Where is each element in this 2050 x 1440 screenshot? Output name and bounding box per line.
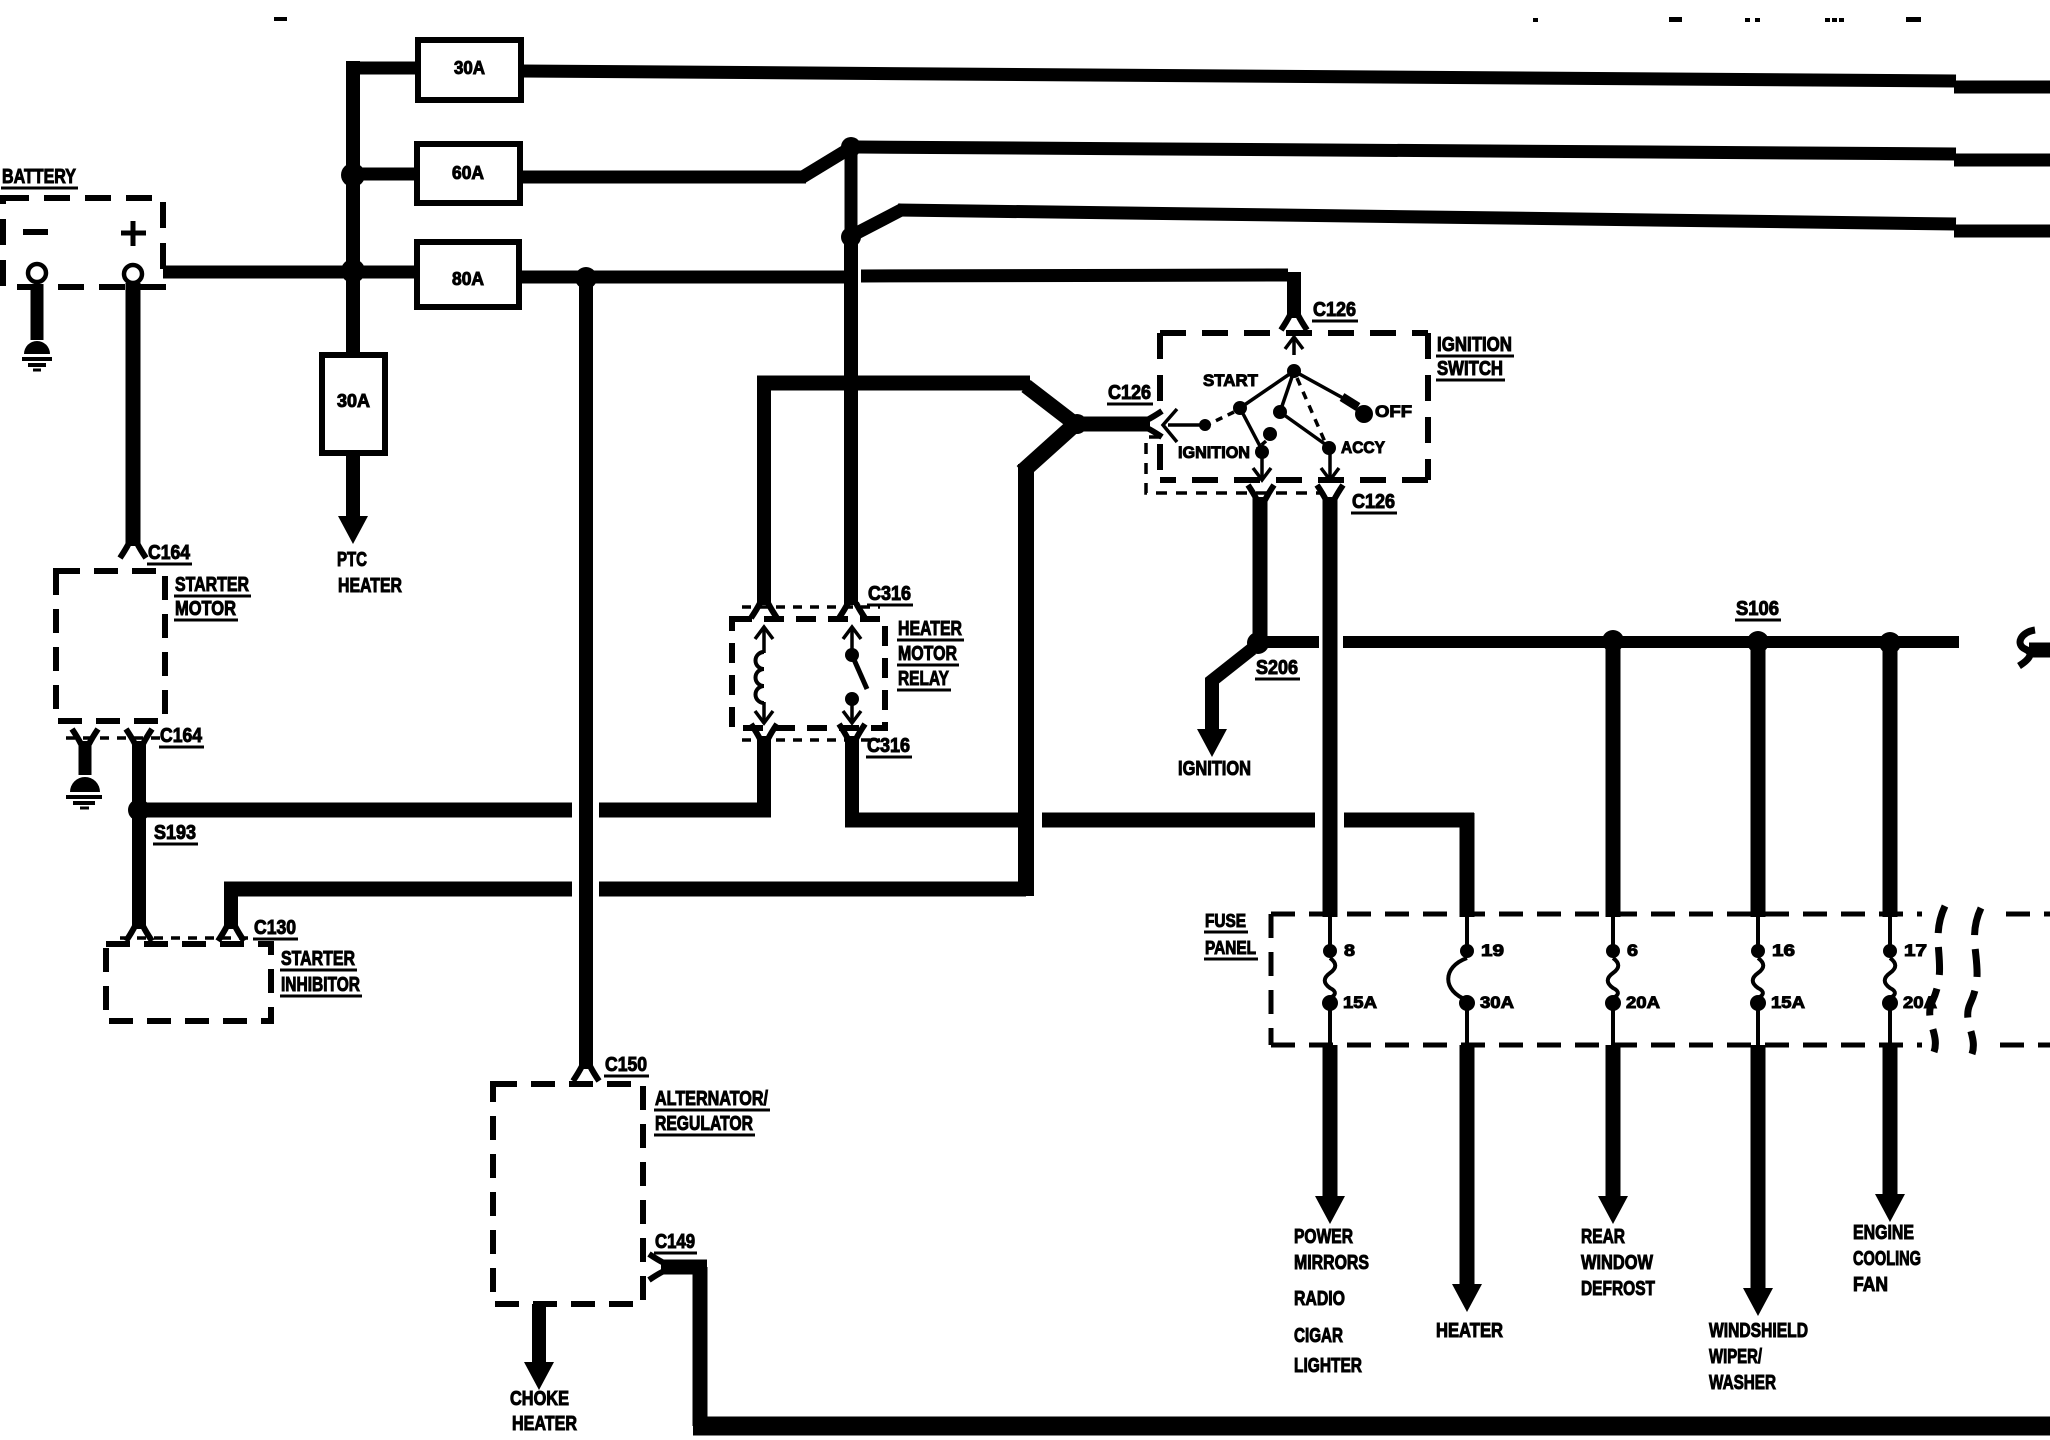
splice S206: [1247, 632, 1269, 654]
svg-text:6: 6: [1627, 941, 1638, 960]
svg-text:20A: 20A: [1626, 993, 1660, 1012]
fuse 16 (15A): [1756, 917, 1760, 948]
svg-text:30A: 30A: [454, 58, 485, 78]
wire: relay output down and right to fuse 19: [845, 736, 859, 827]
svg-text:C164: C164: [160, 725, 203, 747]
svg-text:S206: S206: [1256, 657, 1298, 679]
contact IGNITION: [1255, 445, 1269, 459]
fusible link 30A box: [418, 40, 521, 100]
svg-text:HEATER: HEATER: [898, 618, 962, 640]
arrow to choke heater: [532, 1304, 546, 1366]
svg-text:RADIO: RADIO: [1294, 1288, 1345, 1310]
line START to IGNITION contact: [1240, 408, 1262, 450]
wire: battery negative to ground: [31, 284, 44, 340]
svg-text:COOLING: COOLING: [1853, 1248, 1921, 1270]
svg-text:8: 8: [1344, 941, 1355, 960]
svg-text:20A: 20A: [1903, 993, 1937, 1012]
arrow: fuse 16 output (windshield wiper/washer): [1751, 1045, 1766, 1292]
starter inhibitor dashed box: [106, 944, 271, 1021]
svg-text:C149: C149: [655, 1231, 695, 1253]
switch pivot: [1287, 364, 1301, 378]
svg-text:C130: C130: [254, 917, 296, 939]
contact START: [1240, 371, 1294, 408]
connector C316 (top forks): [751, 603, 777, 618]
wire: 60A feed line to right edge: [858, 147, 1956, 154]
fuse 30A (PTC heater) box: [322, 355, 385, 453]
battery minus terminal symbol: [23, 229, 48, 235]
ground symbol (starter motor): [70, 777, 100, 792]
wire: alternator output bottom feed line: [693, 1417, 2050, 1436]
svg-text:REGULATOR: REGULATOR: [655, 1113, 753, 1135]
svg-text:60A: 60A: [452, 163, 484, 183]
svg-text:IGNITION: IGNITION: [1178, 443, 1250, 462]
small contact dot on line: [1263, 427, 1277, 441]
arrow: fuse 8 output (power mirrors/radio/cigar lighter): [1323, 1045, 1338, 1200]
wire: 30A feed line (top): [521, 71, 1956, 81]
wire: riser x=1026 up toward C126 junction: [1018, 464, 1034, 896]
splice at trunk / 60A tap: [341, 163, 365, 187]
fusible link 80A box: [417, 242, 519, 307]
heater motor relay dashed box: [732, 619, 885, 728]
thin dashed connector line C130: [120, 936, 250, 940]
splice S193: [128, 799, 150, 821]
wire: 80A output: [519, 271, 845, 284]
wire: battery positive down to connector C164: [126, 283, 141, 546]
wire: third feed line to right edge: [898, 210, 1956, 224]
wire: trunk to 60A: [353, 168, 417, 181]
wire: drop to fuse panel (fuse 19): [1460, 813, 1475, 917]
svg-text:DEFROST: DEFROST: [1581, 1278, 1655, 1300]
splice S106: [1747, 631, 1769, 653]
arrow: fuse 17 output (engine cooling fan): [1883, 1045, 1898, 1198]
wire: riser to relay coil pin (left C316): [757, 736, 771, 817]
wire: junction to C126 left connector: [1083, 417, 1150, 432]
wire: diagonal into C126 junction (upper): [1026, 386, 1074, 423]
svg-text:17: 17: [1904, 941, 1927, 960]
arrow to PTC heater: [346, 453, 360, 520]
svg-text:POWER: POWER: [1294, 1226, 1353, 1248]
svg-text:WINDSHIELD: WINDSHIELD: [1709, 1320, 1808, 1342]
fuse 19 (30A): [1465, 917, 1469, 948]
arrow: fuse 6 output (rear window defrost): [1606, 1045, 1621, 1200]
svg-text:IGNITION: IGNITION: [1437, 334, 1512, 356]
wire: diagonal into C126 junction: [1022, 427, 1072, 472]
connector C126 (top fork): [1281, 315, 1307, 330]
svg-text:S106: S106: [1736, 598, 1779, 620]
wire: battery positive to trunk: [163, 266, 353, 279]
svg-text:CIGAR: CIGAR: [1294, 1325, 1343, 1347]
splice (fuse 6 tap): [1602, 630, 1624, 652]
wire: S193 feed right toward heater motor relay: [146, 803, 572, 818]
switch feed pin arrow (up): [1292, 339, 1296, 355]
wire: 80A splice down to alternator C150: [579, 278, 593, 1069]
arrow: fuse 19 output (heater): [1460, 1045, 1475, 1288]
relay switch pin arrow (up): [850, 629, 854, 655]
connector C130 (forks): [126, 926, 152, 941]
wire: C149 output right and down: [661, 1260, 707, 1275]
svg-text:ACCY: ACCY: [1341, 438, 1386, 457]
svg-text:C126: C126: [1352, 491, 1395, 513]
svg-text:C126: C126: [1108, 382, 1151, 404]
ignition switch connector outline (thin dashed): [1146, 437, 1320, 493]
contact OFF: [1294, 371, 1343, 398]
continuation break on bus: [2019, 630, 2035, 666]
connector C316 (bottom forks): [751, 724, 777, 739]
line middle contact to ACCY contact: [1280, 412, 1329, 447]
arrow to IGNITION circuits: [1205, 678, 1219, 733]
battery negative terminal circle: [28, 264, 46, 282]
relay switch contact (lower): [845, 692, 859, 706]
wire: start feed from ignition switch to C130 (vertical at x=231): [224, 882, 238, 929]
wire: relay feed horizontal (from C126 junction) y=383: [757, 376, 1030, 391]
connector C150 (fork): [573, 1066, 599, 1081]
splice (60A feed, upper): [841, 137, 861, 157]
wire: starter motor down to splice S193 and on to C130: [132, 741, 146, 929]
connector C164 (top, fork): [120, 543, 146, 558]
fuse panel continuation break (left curve): [1930, 906, 1945, 1052]
dashed stub below START contact: [1209, 412, 1234, 424]
fuse 8 (15A): [1328, 917, 1332, 948]
ground symbol (battery): [24, 341, 50, 354]
wire: main battery trunk vertical: [346, 61, 360, 355]
svg-text:ENGINE: ENGINE: [1853, 1222, 1914, 1244]
ignition pin arrow down: [1260, 454, 1264, 478]
svg-text:WASHER: WASHER: [1709, 1372, 1776, 1394]
battery positive terminal circle: [124, 265, 142, 283]
fuse panel continuation break (right curve): [1968, 908, 1981, 1054]
svg-text:START: START: [1203, 371, 1259, 390]
splice (fuse 17 tap): [1879, 632, 1901, 654]
wire: drop to fuse 6: [1606, 641, 1621, 917]
svg-text:FUSE: FUSE: [1205, 911, 1246, 931]
connector C126 (left fork): [1147, 411, 1162, 437]
svg-text:ALTERNATOR/: ALTERNATOR/: [655, 1088, 768, 1110]
wire: ignition output down to S206: [1253, 497, 1268, 637]
wire: trunk top corner to fusible link 30A: [347, 62, 418, 75]
fuse panel dashed box: [1271, 914, 1922, 1045]
wire: link between upper and lower splices: [845, 147, 858, 237]
svg-text:19: 19: [1481, 941, 1504, 960]
thin dashed connector line C164 bottom: [66, 736, 160, 740]
svg-text:IGNITION: IGNITION: [1178, 758, 1251, 780]
svg-text:16: 16: [1772, 941, 1795, 960]
wire: drop to relay left pin: [757, 383, 771, 605]
svg-text:15A: 15A: [1343, 993, 1377, 1012]
svg-text:30A: 30A: [337, 391, 370, 411]
wire: trunk down to heater motor relay (x=851): [844, 237, 858, 605]
fuse 17 (20A): [1888, 917, 1892, 948]
svg-text:WIPER/: WIPER/: [1709, 1346, 1762, 1368]
accy pin arrow down: [1328, 454, 1332, 478]
switch feed pin arrow (left): [1168, 423, 1203, 427]
svg-text:BATTERY: BATTERY: [2, 166, 77, 188]
svg-text:INHIBITOR: INHIBITOR: [281, 974, 360, 996]
svg-text:HEATER: HEATER: [512, 1413, 577, 1435]
fuse panel dashed edges after break: [2000, 914, 2050, 1045]
svg-text:MIRRORS: MIRRORS: [1294, 1252, 1369, 1274]
relay switch pin arrow (down): [850, 698, 854, 721]
svg-text:30A: 30A: [1480, 993, 1514, 1012]
C126 junction splice (left feed): [1067, 414, 1087, 434]
svg-text:15A: 15A: [1771, 993, 1805, 1012]
wire: drop to ignition switch C126: [1287, 272, 1301, 318]
fusible link 60A box: [417, 144, 520, 203]
svg-text:C150: C150: [605, 1054, 647, 1076]
svg-text:RELAY: RELAY: [898, 668, 950, 690]
svg-text:C316: C316: [868, 583, 911, 605]
starter motor dashed box: [56, 571, 165, 721]
thin dashed connector line C316 bottom: [742, 738, 880, 742]
dashed line pivot to ACCY: [1297, 378, 1325, 442]
svg-text:CHOKE: CHOKE: [510, 1388, 569, 1410]
svg-text:REAR: REAR: [1581, 1226, 1625, 1248]
svg-text:WINDOW: WINDOW: [1581, 1252, 1653, 1274]
wire: starter motor to ground: [79, 741, 92, 775]
svg-text:OFF: OFF: [1375, 402, 1412, 421]
connector C149 (fork): [649, 1254, 664, 1280]
svg-text:HEATER: HEATER: [1436, 1320, 1503, 1342]
wire: drop to fuse 16: [1751, 642, 1766, 917]
splice at trunk / 80A tap: [341, 259, 365, 283]
scan artifacts: [274, 17, 1921, 22]
wire: drop to fuse 17: [1883, 643, 1898, 917]
contact ACCY: [1322, 441, 1336, 455]
alternator/regulator dashed box: [493, 1084, 643, 1304]
relay switch contact (upper): [845, 648, 859, 662]
connector C164 (bottom forks): [72, 729, 98, 744]
wire: 60A diagonal jog up: [801, 150, 847, 178]
fuse 6 (20A): [1611, 917, 1615, 948]
connector C126 (bottom forks): [1248, 485, 1274, 500]
svg-text:C164: C164: [148, 542, 191, 564]
relay coil: [756, 652, 765, 703]
wire: start feed horizontal run y=889: [224, 882, 572, 897]
svg-text:C316: C316: [867, 735, 910, 757]
wire: S206 diagonal to ignition feed arrow: [1209, 649, 1252, 683]
svg-text:MOTOR: MOTOR: [898, 643, 957, 665]
svg-text:PANEL: PANEL: [1205, 938, 1256, 958]
svg-text:HEATER: HEATER: [338, 575, 402, 597]
wire: diagonal jog to third feed line: [855, 209, 903, 234]
svg-text:FAN: FAN: [1853, 1274, 1888, 1296]
svg-text:80A: 80A: [452, 269, 484, 289]
svg-text:STARTER: STARTER: [175, 574, 249, 596]
ignition switch dashed box: [1160, 330, 1428, 336]
relay coil pin arrow (up): [762, 629, 766, 653]
battery B1 dashed box: [3, 198, 163, 287]
wire: trunk to 80A: [353, 266, 417, 279]
wire: 60A output: [520, 171, 806, 184]
battery plus terminal symbol: [121, 231, 146, 236]
svg-text:SWITCH: SWITCH: [1437, 358, 1503, 380]
svg-text:C126: C126: [1313, 299, 1356, 321]
svg-text:PTC: PTC: [337, 549, 367, 571]
svg-text:LIGHTER: LIGHTER: [1294, 1355, 1362, 1377]
splice on 80A output: [575, 267, 597, 289]
svg-text:S193: S193: [154, 822, 196, 844]
relay coil pin arrow (down): [762, 702, 766, 721]
splice (lower): [841, 227, 861, 247]
svg-text:STARTER: STARTER: [281, 948, 355, 970]
relay switch blade: [852, 655, 867, 689]
thin dashed connector line C316 top: [742, 605, 880, 609]
wire: accessory output down to fuse 8: [1323, 497, 1338, 917]
svg-text:MOTOR: MOTOR: [175, 598, 236, 620]
wire: S206 to S106 bus (y=642): [1266, 636, 1319, 648]
contact (middle): [1280, 371, 1294, 412]
